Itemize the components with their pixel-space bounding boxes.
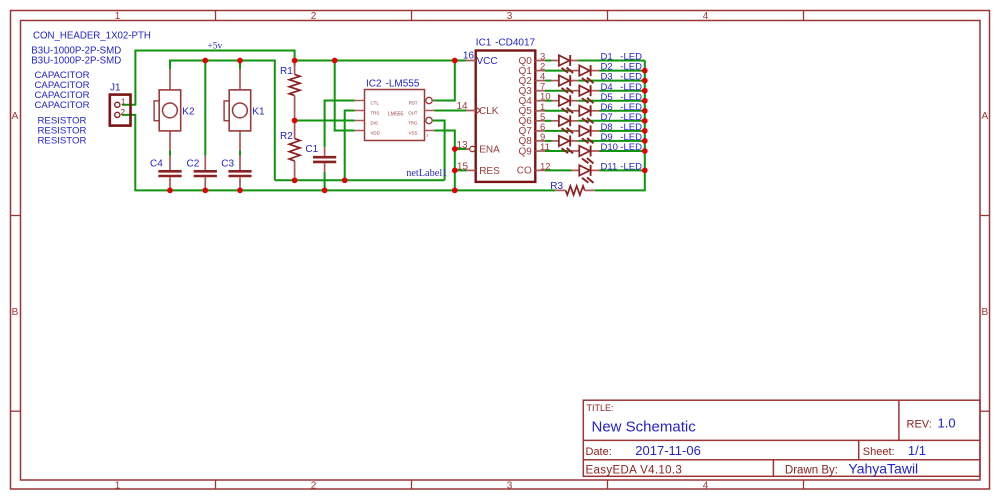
wire K1 to C3 (239, 150, 241, 155)
svg-text:Sheet:: Sheet: (863, 446, 895, 458)
svg-text:C3: C3 (221, 159, 234, 170)
wire Q8 output row D9 (545, 140, 552, 142)
IC1 pin 6 Q7 stub (535, 130, 545, 132)
wire Q1 output row D2 (545, 70, 572, 72)
pushbutton K1 (224, 69, 251, 150)
resistor R2 (289, 123, 300, 178)
svg-text:K1: K1 (252, 107, 265, 118)
svg-text:DIS: DIS (371, 120, 378, 125)
svg-text:1/1: 1/1 (908, 443, 926, 458)
IC1 pin 12 CO stub (535, 169, 545, 171)
svg-text:A: A (981, 111, 988, 122)
LED D2 (579, 65, 593, 83)
svg-text:C1: C1 (305, 144, 318, 155)
svg-text:2017-11-06: 2017-11-06 (635, 443, 701, 458)
svg-text:1: 1 (115, 480, 121, 491)
svg-text:TITLE:: TITLE: (587, 403, 614, 413)
svg-text:-CD4017: -CD4017 (495, 38, 535, 49)
svg-text:RST: RST (409, 100, 418, 105)
svg-text:4: 4 (703, 480, 709, 491)
title block (583, 400, 980, 476)
wire +5v to 555 VDD (335, 61, 355, 131)
svg-text:Date:: Date: (586, 446, 612, 458)
frame row ticks left (11, 215, 21, 217)
wire Q0 output row D1 (545, 60, 552, 62)
wire Q3 output row D4 (545, 90, 572, 92)
wire C1 bottom to ground (324, 172, 326, 190)
wire 555 RST to +5v (433, 61, 455, 101)
IC1 pin 3 Q0 stub (535, 60, 545, 62)
svg-text:netLabel1: netLabel1 (406, 168, 447, 179)
LED D9 (559, 135, 573, 153)
wire Q4 output row D5 (545, 100, 552, 102)
svg-text:2: 2 (311, 11, 317, 22)
svg-text:J1: J1 (110, 82, 121, 93)
svg-text:OUT: OUT (408, 110, 418, 115)
wire Q2 output row D3 (545, 80, 552, 82)
svg-text:CAPACITOR: CAPACITOR (35, 100, 90, 111)
svg-text:CLK: CLK (479, 106, 499, 117)
svg-text:C2: C2 (187, 159, 200, 170)
wire C4 bottom stub (169, 187, 171, 190)
LED D7 (559, 115, 573, 133)
svg-text:Drawn By:: Drawn By: (785, 465, 838, 477)
capacitor C1 (313, 147, 336, 172)
LED D10 (579, 146, 593, 164)
wire 555 TRG to net2 (433, 121, 445, 181)
svg-text:REV:: REV: (907, 418, 932, 430)
svg-text:13: 13 (457, 140, 469, 151)
svg-text:EasyEDA V4.10.3: EasyEDA V4.10.3 (586, 465, 683, 477)
wire net2 horizontal run (R2 bottom) (275, 179, 445, 181)
IC1 pin 5 Q6 stub (535, 120, 545, 122)
wire C2 bottom stub (204, 187, 206, 190)
svg-text:RES: RES (479, 166, 500, 177)
wire +5v top rail from J1 pin1 (122, 51, 295, 105)
wire ground bus from J1 pin2 to R3 (122, 115, 555, 190)
svg-text:VSS: VSS (409, 130, 418, 135)
frame column ticks top (215, 11, 217, 21)
svg-text:1.0: 1.0 (938, 416, 956, 431)
svg-text:2: 2 (311, 480, 317, 491)
svg-text:LM555: LM555 (388, 112, 404, 118)
wire Q9 output row D10 (545, 150, 572, 152)
connector J1 (110, 95, 131, 126)
svg-text:New Schematic: New Schematic (592, 419, 697, 436)
IC1 pin 10 Q4 stub (535, 100, 545, 102)
wire Q6 output row D7 (545, 120, 552, 122)
IC1 pin 2 Q1 stub (535, 70, 545, 72)
IC1 pin 15 RES stub (466, 169, 476, 171)
capacitor C3 (228, 156, 251, 188)
svg-text:CTL: CTL (371, 100, 380, 105)
IC1 pin 9 Q8 stub (535, 140, 545, 142)
svg-text:1: 1 (121, 96, 126, 106)
svg-text:VCC: VCC (477, 56, 498, 67)
LED D4 (579, 85, 593, 103)
svg-text:1: 1 (115, 11, 121, 22)
resistor R1 (289, 63, 300, 118)
svg-text:-LM555: -LM555 (386, 78, 420, 89)
LED D6 (579, 105, 593, 123)
svg-text:4: 4 (703, 11, 709, 22)
svg-text:C4: C4 (150, 159, 163, 170)
svg-text:CO: CO (517, 166, 532, 177)
wire IC1 RES stub (455, 169, 466, 171)
LED D3 (559, 75, 573, 93)
LED D1 (559, 55, 573, 73)
frame row ticks right (980, 215, 990, 217)
svg-text:CON_HEADER_1X02-PTH: CON_HEADER_1X02-PTH (33, 31, 151, 42)
svg-text:B3U-1000P-2P-SMD: B3U-1000P-2P-SMD (31, 56, 121, 67)
svg-text:D11: D11 (601, 162, 618, 173)
wire vcc rail to IC1 pin16 (295, 60, 466, 62)
svg-text:Q9: Q9 (518, 146, 532, 157)
capacitor C4 (158, 156, 181, 188)
svg-text:14: 14 (457, 101, 469, 112)
op-amp timer IC2 LM555 body (355, 90, 435, 141)
svg-text:16: 16 (463, 51, 475, 62)
IC1 CLK wedge (476, 107, 481, 114)
svg-text:R1: R1 (280, 66, 293, 77)
pushbutton K2 (154, 69, 181, 150)
wire Q5 output row D6 (545, 110, 572, 112)
svg-text:IC2: IC2 (366, 78, 382, 89)
IC1 pin 4 Q2 stub (535, 80, 545, 82)
svg-text:D10: D10 (601, 142, 618, 153)
wire CO output row D11 (545, 169, 572, 171)
junction dots (292, 58, 298, 64)
capacitor C2 (194, 156, 217, 188)
svg-text:B: B (12, 307, 19, 318)
IC1 pin 1 Q5 stub (535, 110, 545, 112)
svg-text:-LED: -LED (620, 142, 642, 153)
IC1 pin 16 VCC stub (466, 60, 476, 62)
IC1 pin 13 ENA bubble (466, 148, 470, 150)
svg-text:YahyaTawil: YahyaTawil (848, 461, 918, 477)
svg-text:-LED: -LED (620, 162, 642, 173)
wire Q7 output row D8 (545, 130, 572, 132)
LED D8 (579, 125, 593, 143)
svg-text:VDD: VDD (371, 130, 380, 135)
svg-text:ENA: ENA (479, 144, 500, 155)
IC1 pin 14 CLK stub (466, 110, 476, 112)
wire button rail K2 K1 (170, 61, 275, 181)
svg-text:IC1: IC1 (476, 38, 492, 49)
wire C2 column (204, 61, 206, 156)
IC1 pin 7 Q3 stub (535, 90, 545, 92)
svg-text:R2: R2 (280, 131, 293, 142)
svg-text:1: 1 (426, 133, 429, 138)
svg-text:TRS: TRS (371, 110, 380, 115)
wire K2 to C4 (169, 150, 171, 155)
LED rail junction dots (642, 68, 648, 74)
LED D5 (559, 95, 573, 113)
LED D11 (579, 165, 593, 183)
wire IC1 ENA stub (455, 148, 467, 150)
wire ground bus R3 to LED rail (595, 61, 645, 191)
wire K1 top stub (239, 61, 241, 70)
svg-text:K2: K2 (182, 107, 195, 118)
svg-text:B: B (981, 307, 988, 318)
svg-text:15: 15 (457, 161, 469, 172)
wire 555 CTL to C1 (325, 101, 355, 148)
wire R1 top stub (294, 61, 296, 67)
counter IC1 CD4017 body (476, 51, 536, 182)
wire 555 TRS to net2 (345, 111, 355, 181)
wire 555 VSS to ground (435, 131, 455, 191)
svg-text:R3: R3 (550, 181, 563, 192)
wire 555 DIS to R1-R2 node (295, 120, 355, 122)
wire 555 OUT to IC1 CLK (435, 110, 467, 112)
svg-text:TRG: TRG (408, 120, 418, 125)
svg-text:A: A (12, 111, 19, 122)
svg-text:3: 3 (507, 11, 513, 22)
frame column ticks bottom (215, 480, 217, 489)
resistor R3 (555, 186, 595, 195)
svg-text:2: 2 (120, 107, 125, 117)
svg-text:3: 3 (507, 480, 513, 491)
svg-text:+5v: +5v (207, 41, 222, 51)
wire C3 bottom stub (239, 187, 241, 190)
svg-text:RESISTOR: RESISTOR (38, 136, 87, 147)
IC1 pin 11 Q9 stub (535, 150, 545, 152)
